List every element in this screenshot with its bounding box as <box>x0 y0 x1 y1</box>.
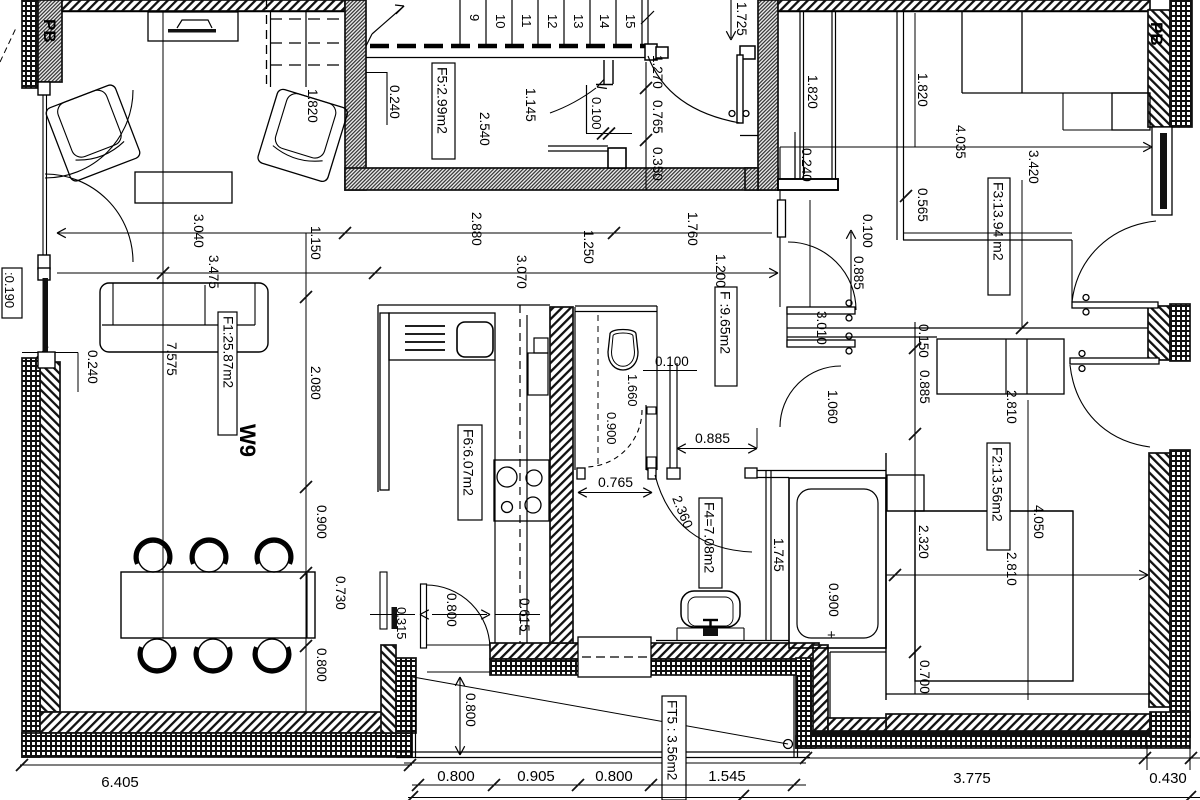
svg-text:0.900: 0.900 <box>604 412 619 445</box>
svg-text::0.190: :0.190 <box>2 272 17 308</box>
svg-text:2.080: 2.080 <box>308 366 323 400</box>
svg-text:3.420: 3.420 <box>1026 150 1041 184</box>
svg-text:1.060: 1.060 <box>825 390 840 424</box>
svg-text:0.100: 0.100 <box>655 354 689 369</box>
svg-text:2.320: 2.320 <box>916 525 931 559</box>
svg-text:PB: PB <box>1147 22 1166 46</box>
svg-text:1.145: 1.145 <box>523 88 538 122</box>
svg-text:0.900: 0.900 <box>314 505 329 539</box>
svg-text:1.250: 1.250 <box>581 230 596 264</box>
svg-text:0.100: 0.100 <box>860 214 875 248</box>
svg-text:2.540: 2.540 <box>477 112 492 146</box>
svg-text:2.810: 2.810 <box>1004 552 1019 586</box>
svg-text:1.725: 1.725 <box>734 2 749 36</box>
svg-text:PB: PB <box>40 19 59 43</box>
svg-text:1.820: 1.820 <box>305 89 320 123</box>
svg-text:1.820: 1.820 <box>915 73 930 107</box>
svg-text:0.730: 0.730 <box>333 576 348 610</box>
svg-text:10: 10 <box>493 14 508 28</box>
svg-text:0.800: 0.800 <box>444 593 459 627</box>
svg-text:0.240: 0.240 <box>85 350 100 384</box>
svg-text:3.775: 3.775 <box>953 770 991 787</box>
svg-text:F6:6.07m2: F6:6.07m2 <box>461 429 477 496</box>
svg-text:FT5 : 3.56m2: FT5 : 3.56m2 <box>665 700 680 780</box>
svg-text:0.905: 0.905 <box>517 768 555 785</box>
svg-text:1.150: 1.150 <box>308 226 323 260</box>
svg-text:0.240: 0.240 <box>799 148 814 182</box>
svg-text:6.405: 6.405 <box>101 774 139 791</box>
svg-text:0.430: 0.430 <box>1149 770 1187 787</box>
svg-text:0.700: 0.700 <box>917 660 932 694</box>
svg-text:0.240: 0.240 <box>387 85 402 119</box>
svg-text:W9: W9 <box>235 424 260 457</box>
svg-text:12: 12 <box>545 14 560 28</box>
svg-text:0.150: 0.150 <box>916 324 931 358</box>
svg-text:4.050: 4.050 <box>1031 505 1046 539</box>
svg-text:0.765: 0.765 <box>650 100 665 134</box>
svg-text:0.800: 0.800 <box>437 768 475 785</box>
svg-text:15: 15 <box>623 14 638 28</box>
svg-text:0.800: 0.800 <box>463 693 478 727</box>
svg-text:2.810: 2.810 <box>1004 390 1019 424</box>
svg-text:14: 14 <box>597 14 612 28</box>
svg-text:0.315: 0.315 <box>394 607 409 640</box>
svg-text:13: 13 <box>571 14 586 28</box>
svg-text:0.800: 0.800 <box>595 768 633 785</box>
svg-text:0.100: 0.100 <box>589 97 604 130</box>
svg-text:3.475: 3.475 <box>206 255 221 289</box>
svg-text:9: 9 <box>467 14 482 21</box>
svg-text:0.565: 0.565 <box>915 188 930 222</box>
svg-text:F3:13.94 m2: F3:13.94 m2 <box>991 182 1007 261</box>
svg-text:F1:25.87m2: F1:25.87m2 <box>221 316 236 388</box>
svg-text:1.200: 1.200 <box>713 254 728 288</box>
svg-text:0.885: 0.885 <box>695 430 730 446</box>
svg-text:0.800: 0.800 <box>314 648 329 682</box>
svg-text:7.575: 7.575 <box>164 342 179 376</box>
svg-text:1.745: 1.745 <box>771 538 786 572</box>
svg-text:1.270: 1.270 <box>650 55 665 89</box>
svg-text:1.820: 1.820 <box>805 75 820 109</box>
svg-text:0.885: 0.885 <box>851 256 866 290</box>
svg-text:4.035: 4.035 <box>953 125 968 159</box>
svg-text:F2:13.56m2: F2:13.56m2 <box>990 447 1006 522</box>
svg-text:0.885: 0.885 <box>917 370 932 404</box>
svg-text:11: 11 <box>519 14 534 28</box>
svg-text:3.040: 3.040 <box>191 214 206 248</box>
svg-text:0.765: 0.765 <box>598 474 633 490</box>
svg-text:+: + <box>827 627 836 644</box>
svg-text:F4=7.08m2: F4=7.08m2 <box>702 502 718 573</box>
svg-text:F :9.65m2: F :9.65m2 <box>718 291 734 354</box>
svg-text:1.660: 1.660 <box>625 374 640 407</box>
svg-text:0.900: 0.900 <box>826 583 841 617</box>
svg-text:F5:2.99m2: F5:2.99m2 <box>435 67 451 134</box>
svg-text:3.070: 3.070 <box>514 255 529 289</box>
svg-text:1.545: 1.545 <box>708 768 746 785</box>
svg-text:2.880: 2.880 <box>469 212 484 246</box>
svg-text:0.350: 0.350 <box>650 147 665 181</box>
svg-text:1.760: 1.760 <box>685 212 700 246</box>
